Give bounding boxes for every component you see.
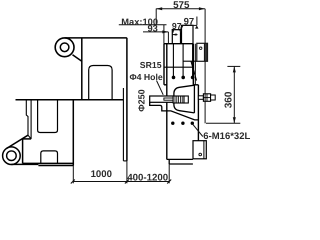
top lug inner circle: [60, 43, 69, 52]
Max:100 leader: [119, 24, 167, 26]
97 upper right ext: [196, 17, 198, 26]
column bottom bevel: [28, 135, 31, 139]
small arrow line in block B: [173, 34, 178, 36]
360 top ext tick: [227, 65, 240, 67]
575 right arrow: [199, 7, 205, 10]
left step notch: [164, 84, 167, 86]
inner rod band: [164, 98, 173, 100]
97 upper dim line: [182, 24, 197, 26]
6-M16 leader: [193, 124, 203, 137]
right edge of left view: [126, 38, 128, 161]
foot bump: [41, 151, 58, 164]
svg-text:Φ4 Hole: Φ4 Hole: [130, 72, 163, 82]
bottom cap of right leg: [123, 160, 127, 162]
threaded section: [173, 96, 184, 103]
bottom lug outer circle: [3, 147, 21, 165]
right ext: [168, 164, 170, 183]
rounded slot in upper block: [89, 66, 112, 100]
P-block top right: [197, 43, 208, 61]
body left edge upper: [163, 44, 165, 85]
svg-text:93: 93: [148, 24, 158, 34]
svg-text:Φ250: Φ250: [137, 89, 147, 111]
phi4 leader: [157, 81, 164, 95]
middle ext (126.9): [126, 161, 128, 183]
shelf line: [16, 99, 124, 101]
left edge of upper block: [81, 38, 83, 100]
97 lower end ticks: [172, 30, 175, 34]
575 right extension: [204, 9, 206, 124]
1000 left ext: [72, 166, 74, 184]
lower body right edge: [72, 100, 74, 166]
93 arrow: [162, 30, 168, 33]
svg-text:360: 360: [223, 91, 234, 108]
body right edge lower: [197, 85, 199, 144]
tower block B: [172, 30, 180, 44]
arrowheads: [156, 7, 236, 123]
base band bottom: [38, 165, 73, 167]
svg-text:97: 97: [184, 16, 195, 27]
bottom plate of right view: [167, 159, 193, 164]
dot row 2: [171, 122, 174, 125]
93 leader: [143, 31, 168, 33]
dot row 1: [172, 76, 176, 80]
inner chamfer diagonal: [191, 61, 197, 80]
narrow column right line: [30, 100, 32, 139]
575 left extension: [155, 9, 157, 25]
body left edge lower: [166, 44, 168, 160]
93 ext vertical: [167, 32, 169, 44]
horn (barrel bell): [174, 85, 195, 113]
inner horizontal at P-block bottom level: [183, 60, 197, 62]
97 upper arrows: [180, 25, 184, 28]
tower block C: [182, 25, 194, 43]
svg-text:6-M16*32L: 6-M16*32L: [203, 131, 250, 142]
svg-text:97: 97: [172, 21, 182, 31]
tie bar 1: [172, 44, 174, 78]
575 dimension line: [156, 8, 205, 10]
lug lower diagonal: [73, 55, 82, 62]
small arrow in block B: [173, 33, 177, 35]
column cap: [23, 138, 32, 140]
right bolt: [198, 94, 215, 102]
narrow column left line: [26, 100, 28, 136]
step notch: [193, 84, 198, 86]
nozzle assembly: [150, 96, 189, 103]
step line below nozzle: [150, 102, 199, 120]
body right edge upper: [192, 44, 194, 85]
575 left arrow: [156, 7, 162, 10]
left lower edge: [22, 139, 24, 164]
360 bottom ext tick: [206, 122, 240, 124]
360 dim line: [233, 66, 235, 123]
nozzle body rect: [150, 96, 173, 102]
tie bar 3: [192, 44, 194, 78]
bottom lug inner circle: [7, 151, 17, 161]
bottom block: [193, 141, 206, 159]
body top edge: [164, 43, 194, 45]
oblique ticks on bottom dims: [71, 180, 171, 184]
97 lower dim line: [172, 29, 180, 31]
inner vertical near right edge: [122, 88, 124, 161]
svg-text:SR15: SR15: [140, 60, 162, 70]
tip cap: [184, 96, 188, 103]
platen split line: [164, 66, 194, 68]
body right inner line upper: [194, 44, 196, 85]
bottom lug top tangent: [7, 135, 29, 148]
tie bar 2: [182, 44, 184, 78]
base band top: [23, 162, 74, 164]
360 bottom arrow: [233, 117, 236, 123]
bottom dim line: [73, 181, 169, 183]
top lug outer circle: [55, 38, 74, 57]
U slot below shelf: [38, 100, 58, 133]
top edge of upper block: [65, 37, 127, 39]
bottom lug bottom tangent: [11, 163, 38, 165]
svg-text:1000: 1000: [91, 169, 112, 180]
Max:100 ext vertical: [163, 25, 165, 44]
svg-text:575: 575: [173, 0, 190, 11]
360 top arrow: [233, 66, 236, 72]
svg-text:400-1200: 400-1200: [127, 172, 168, 183]
